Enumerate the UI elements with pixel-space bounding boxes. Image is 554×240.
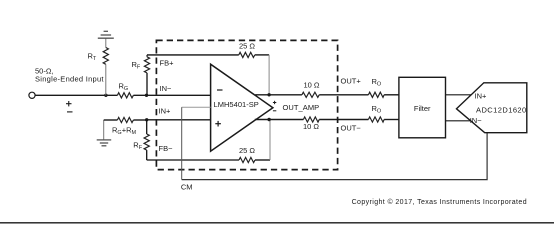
wire: OUT- amp output row bbox=[255, 119, 399, 121]
wire: FB+ feedback to OUT+ bbox=[147, 55, 269, 95]
filter block bbox=[399, 77, 446, 138]
ground (top, RT termination) bbox=[98, 31, 114, 38]
resistor RO (bottom) bbox=[368, 117, 384, 122]
node: FB+ junction bbox=[145, 94, 148, 97]
wire: filter to ADC IN- bbox=[446, 120, 471, 122]
node: RT junction bbox=[104, 94, 107, 97]
svg-text:OUT+: OUT+ bbox=[341, 77, 362, 86]
wire: RG+RM to IN+ pin bbox=[147, 119, 211, 121]
resistor RF (top) bbox=[144, 55, 149, 95]
op-amp input polarity marks bbox=[215, 90, 222, 127]
wire: FB- feedback to OUT- bbox=[147, 120, 270, 161]
svg-text:Copyright © 2017, Texas Instru: Copyright © 2017, Texas Instruments Inco… bbox=[352, 198, 527, 206]
svg-text:IN+: IN+ bbox=[475, 92, 488, 101]
node: OUT+ junction bbox=[267, 93, 270, 96]
svg-text:25 Ω: 25 Ω bbox=[239, 41, 255, 50]
resistor RG bbox=[117, 93, 133, 98]
svg-text:IN−: IN− bbox=[160, 84, 173, 93]
svg-text:IN−: IN− bbox=[470, 116, 483, 125]
svg-text:ADC12D1620: ADC12D1620 bbox=[476, 105, 526, 114]
node: FB- junction bbox=[145, 118, 148, 121]
wire: RG to IN- pin bbox=[133, 94, 210, 96]
svg-text:OUT−: OUT− bbox=[341, 124, 362, 133]
resistor RO (top) bbox=[368, 92, 384, 97]
op-amp U1 LMH5401-SP triangle bbox=[211, 64, 273, 151]
svg-text:10 Ω: 10 Ω bbox=[303, 122, 319, 131]
resistor 10 ohm (bottom) bbox=[303, 117, 319, 122]
svg-text:10 Ω: 10 Ω bbox=[304, 80, 320, 89]
ADC U2 ADC12D1620 bbox=[457, 83, 527, 133]
node: OUT- junction bbox=[267, 118, 270, 121]
svg-text:LMH5401-SP: LMH5401-SP bbox=[214, 100, 259, 109]
svg-text:25 Ω: 25 Ω bbox=[239, 146, 255, 155]
wire: OUT+ amp output row bbox=[255, 94, 399, 96]
ground (lower, source termination) bbox=[97, 120, 112, 146]
svg-text:Filter: Filter bbox=[414, 104, 431, 113]
resistor 25 ohm (top) bbox=[239, 52, 255, 57]
svg-text:CM: CM bbox=[181, 182, 193, 191]
resistor 25 ohm (bottom) bbox=[239, 157, 255, 162]
resistor RF (bottom) bbox=[144, 120, 149, 160]
svg-text:Single-Ended Input: Single-Ended Input bbox=[35, 75, 104, 84]
wire: CM pin to CM net bbox=[182, 107, 487, 179]
label: 50-ohm single-ended input bbox=[35, 67, 104, 84]
wire: filter to ADC IN+ bbox=[446, 94, 472, 96]
source polarity marks bbox=[66, 101, 73, 112]
svg-text:IN+: IN+ bbox=[159, 107, 172, 116]
resistor 10 ohm (top) bbox=[302, 92, 319, 97]
svg-text:FB−: FB− bbox=[159, 144, 174, 153]
resistor RG+RM bbox=[104, 117, 147, 122]
wire: input to RG bbox=[35, 94, 117, 96]
resistor RT bbox=[103, 38, 108, 95]
svg-text:FB+: FB+ bbox=[160, 58, 175, 67]
op-amp output polarity marks bbox=[273, 101, 276, 111]
dashed box: LMH5401-SP amplifier boundary bbox=[156, 40, 337, 169]
input port J1 bbox=[29, 92, 35, 98]
svg-text:OUT_AMP: OUT_AMP bbox=[283, 103, 320, 112]
